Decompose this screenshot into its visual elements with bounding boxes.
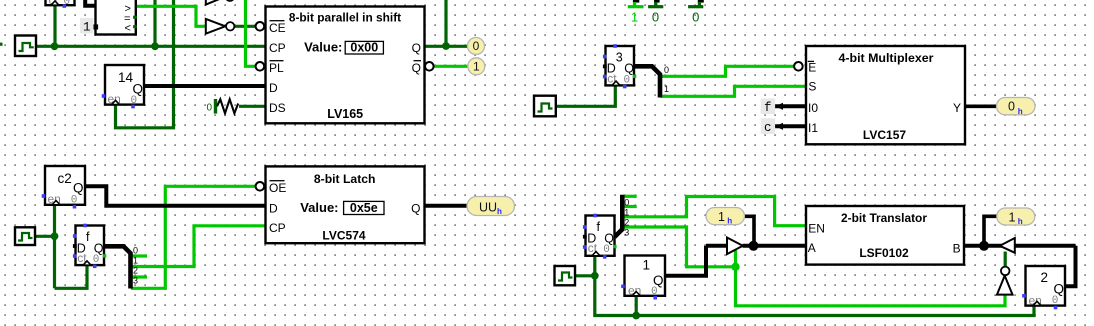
- bus register 2 Q to buffer2 input: [1065, 246, 1076, 286]
- svg-text:UU: UU: [479, 201, 497, 215]
- svg-text:D: D: [269, 201, 278, 215]
- svg-text:0: 0: [1008, 100, 1015, 114]
- probe 0h: [997, 98, 1036, 117]
- svg-text:2-bit Translator: 2-bit Translator: [841, 211, 927, 225]
- register 1: [621, 256, 665, 300]
- wire DS resistor to chip: [239, 105, 266, 108]
- svg-text:0: 0: [93, 254, 100, 266]
- svg-text:0: 0: [664, 65, 669, 75]
- wire clock3 to flip-flop 3: [556, 85, 615, 106]
- wire vertical from cut flip-flop to CP net: [53, 5, 56, 46]
- input bubble CE: [256, 22, 265, 31]
- svg-text:LV165: LV165: [327, 107, 363, 121]
- splitter f1 bit labels: [133, 246, 138, 286]
- wire splitter f2 bit0 stub: [623, 195, 637, 198]
- svg-text:c2: c2: [58, 171, 72, 186]
- bus register c2 Q to D pin of LVC574: [85, 186, 266, 206]
- bus buffer1 input: [706, 244, 727, 248]
- svg-text:8-bit parallel in shift: 8-bit parallel in shift: [289, 11, 401, 25]
- svg-text:Value:: Value:: [300, 200, 338, 215]
- register 14: [102, 65, 144, 108]
- wire vertical to PL bubble: [246, 0, 256, 66]
- svg-text:1: 1: [83, 21, 91, 35]
- constant c: [761, 118, 783, 135]
- svg-text:A: A: [808, 241, 816, 255]
- controlled buffer (A side): [727, 238, 743, 255]
- svg-text:3: 3: [624, 228, 629, 238]
- svg-text:2: 2: [1041, 270, 1049, 285]
- bus LVC574 Q to probe UU: [425, 204, 468, 208]
- constant 1: [80, 18, 98, 35]
- svg-text:f: f: [86, 230, 90, 244]
- svg-text:0: 0: [473, 39, 480, 53]
- wire splitter f1 bit2 stub: [131, 275, 147, 278]
- wire comparator greater output to inverter U1: [136, 6, 206, 26]
- svg-text:8-bit Latch: 8-bit Latch: [314, 172, 376, 186]
- svg-text:Value:: Value:: [304, 40, 342, 55]
- probe 0: [468, 38, 485, 55]
- svg-text:1: 1: [473, 59, 480, 73]
- node junction clock2: [51, 232, 59, 240]
- bus from cut component into comparator: [85, 0, 95, 6]
- splitter 3 bit labels: [664, 65, 669, 94]
- svg-text:1: 1: [718, 210, 725, 224]
- svg-text:CE: CE: [269, 21, 286, 35]
- svg-text:h: h: [1018, 107, 1023, 117]
- output bubble Qbar: [425, 62, 434, 71]
- svg-text:1: 1: [1009, 210, 1016, 224]
- svg-text:I0: I0: [808, 101, 818, 115]
- wire buffer1 enable: [734, 249, 737, 267]
- input bubble OE: [256, 182, 265, 191]
- clock CLK4: [555, 266, 576, 285]
- svg-text:0: 0: [652, 9, 659, 24]
- resistor pull-down 0 on DS: [207, 99, 239, 114]
- wire inverter U1 output to CE bubble: [235, 25, 256, 28]
- wire Qbar to probe 1: [434, 65, 468, 68]
- svg-text:1: 1: [133, 256, 138, 266]
- bus constant f to I0: [775, 104, 806, 108]
- svg-text:PL: PL: [269, 61, 284, 75]
- bus splitter f2 spine: [615, 195, 623, 237]
- wire register 14 clock path: [116, 0, 174, 128]
- wire CP net horizontal clock1 to LV165: [36, 45, 266, 48]
- svg-text:Q: Q: [412, 61, 421, 75]
- bus splitter3 spine: [634, 66, 660, 97]
- svg-text:0x5e: 0x5e: [350, 201, 378, 215]
- node junction clock4: [591, 272, 599, 280]
- svg-text:<: <: [125, 23, 131, 35]
- splitter f2 bit labels: [624, 198, 629, 238]
- bus register 14 Q to D pin: [144, 84, 266, 88]
- svg-text:Q: Q: [412, 41, 421, 55]
- pin stub value 0 (top, right): [688, 0, 704, 24]
- svg-text:1: 1: [624, 208, 629, 218]
- bus constant c to I1: [775, 124, 806, 128]
- svg-text:h: h: [1018, 217, 1023, 227]
- svg-text:D: D: [269, 81, 278, 95]
- pin stub value 0 (top, middle): [648, 0, 663, 24]
- bus splitter f1 spine: [104, 246, 131, 288]
- svg-text:LVC157: LVC157: [863, 128, 906, 142]
- svg-text:h: h: [497, 207, 502, 217]
- svg-text:14: 14: [118, 70, 134, 85]
- wire vertical at x=155 from top to CP net: [153, 0, 156, 46]
- bus junction up to probe 1h right: [984, 216, 997, 246]
- constant f: [761, 98, 783, 114]
- svg-text:1: 1: [631, 9, 638, 24]
- node junction bottom rail register1: [632, 312, 640, 320]
- input bubble PL: [256, 62, 265, 71]
- svg-text:0: 0: [692, 9, 699, 24]
- wire splitter f1 bit0 stub: [131, 254, 147, 257]
- wire stub at left edge: [0, 43, 3, 46]
- register c2: [42, 166, 85, 209]
- input bubble E: [794, 62, 803, 71]
- flip-flop f (bottom-left): [73, 224, 106, 268]
- clock CLK3: [534, 96, 556, 117]
- wire bit3 net to bottom rail: [736, 267, 1006, 306]
- wire splitter f2 bit3 net: [623, 227, 736, 267]
- svg-text:0: 0: [624, 198, 629, 208]
- bus B pin through buffer2 to register 2 corner: [964, 244, 1076, 248]
- chip LVC574: [256, 166, 425, 243]
- svg-text:S: S: [808, 80, 816, 94]
- wire splitter f2 bit1 stub: [623, 205, 637, 208]
- flip-flop f (bottom-right): [583, 214, 617, 259]
- controlled buffer (B side, facing left): [1000, 238, 1015, 253]
- svg-text:h: h: [727, 217, 732, 227]
- svg-text:Q: Q: [411, 201, 420, 215]
- svg-text:0: 0: [133, 246, 138, 256]
- svg-text:2: 2: [624, 218, 629, 228]
- comparator: [96, 0, 137, 35]
- wire splitter3 bit1 to S pin: [661, 86, 807, 96]
- node junction LV165 Q: [442, 42, 450, 50]
- wire inverter output to buffer enable (B side): [1004, 252, 1007, 267]
- svg-text:0: 0: [603, 244, 610, 256]
- probe UUh: [467, 197, 515, 218]
- svg-text:LSF0102: LSF0102: [859, 246, 909, 260]
- inverter (facing up): [997, 267, 1013, 295]
- svg-text:3: 3: [133, 276, 138, 286]
- wire vertical above Q junction: [444, 0, 447, 46]
- bus register 1 Q to buffer input: [665, 246, 706, 276]
- bus LVC157 Y to probe 0h: [965, 105, 997, 109]
- bus buffer1 output to A pin: [743, 244, 807, 248]
- svg-text:OE: OE: [269, 181, 286, 195]
- chip LV165: [256, 7, 434, 124]
- svg-text:B: B: [953, 241, 961, 255]
- pin stub value 1 (top): [628, 0, 644, 24]
- node junction A net: [749, 241, 759, 251]
- svg-text:1: 1: [664, 84, 669, 94]
- svg-text:0: 0: [71, 195, 78, 207]
- svg-text:f: f: [597, 220, 601, 234]
- svg-text:Y: Y: [953, 101, 961, 115]
- node junction x155/CP: [151, 42, 159, 50]
- wire clock2 net bottom-left: [35, 235, 55, 238]
- wire splitter3 bit0 to E bubble: [661, 66, 795, 76]
- inverter (cut off at top): [206, 0, 234, 5]
- wire splitter f1 bit3 to OE bubble: [131, 186, 256, 288]
- clock CLK2: [15, 227, 35, 245]
- probe 1h (right): [997, 208, 1035, 227]
- bus probe 1h left to A net: [745, 216, 755, 246]
- svg-text:E: E: [808, 61, 816, 75]
- svg-text:0: 0: [1052, 295, 1059, 307]
- clock CLK1: [15, 36, 36, 57]
- register 2: [1022, 266, 1065, 309]
- flip-flop 3: [603, 44, 636, 88]
- svg-text:c: c: [764, 121, 772, 135]
- node junction bit3 / buffer enable: [731, 263, 739, 271]
- svg-text:DS: DS: [269, 101, 286, 115]
- svg-text:4-bit Multiplexer: 4-bit Multiplexer: [838, 51, 933, 65]
- svg-text:CP: CP: [269, 221, 286, 235]
- svg-text:3: 3: [616, 50, 623, 64]
- svg-text:0x00: 0x00: [350, 40, 378, 54]
- inverter U1: [206, 19, 235, 34]
- svg-text:LVC574: LVC574: [322, 228, 365, 242]
- wire splitter f2 bit2 to EN pin: [623, 197, 806, 226]
- wire clock4 net bottom-right: [575, 274, 595, 277]
- flip-flop (cut off at top edge): [46, 0, 75, 8]
- svg-text:0: 0: [207, 103, 213, 114]
- chip LVC157: [806, 46, 965, 144]
- svg-text:2: 2: [133, 266, 138, 276]
- svg-text:CP: CP: [269, 41, 286, 55]
- wire LV165 Q output to probe: [425, 45, 468, 48]
- wire splitter f1 bit1 to CP pin: [131, 226, 266, 267]
- node junction clock1/CP: [51, 42, 59, 50]
- svg-text:EN: EN: [808, 221, 825, 235]
- svg-text:0: 0: [624, 74, 631, 86]
- svg-text:1: 1: [643, 258, 651, 273]
- node junction B net: [979, 241, 989, 251]
- svg-text:I1: I1: [808, 121, 818, 135]
- probe 1h (left): [706, 208, 745, 227]
- chip LSF0102: [806, 206, 964, 265]
- svg-text:Q: Q: [73, 181, 84, 196]
- svg-text:f: f: [764, 101, 772, 115]
- probe 1: [468, 58, 485, 75]
